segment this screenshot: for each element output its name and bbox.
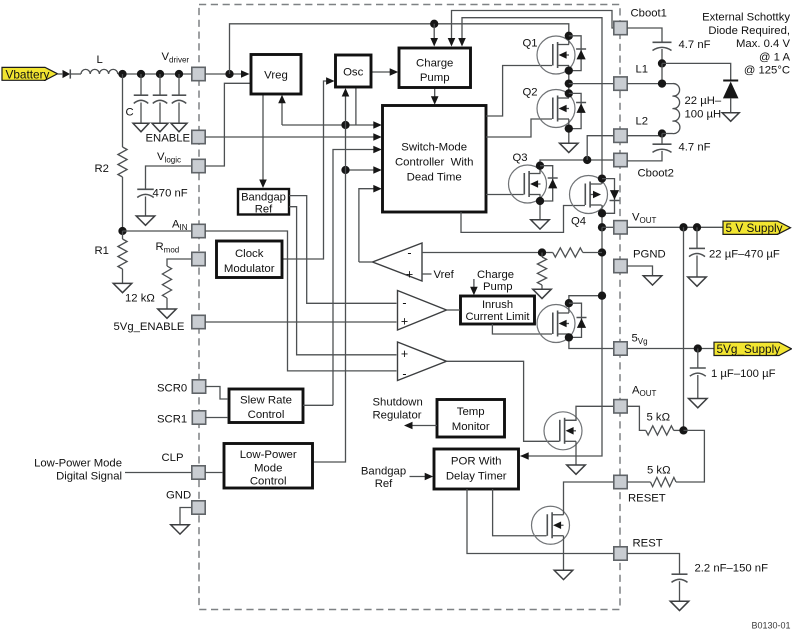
svg-text:100 µH: 100 µH <box>685 109 722 121</box>
svg-text:Controller With: Controller With <box>395 157 474 169</box>
wire SCR1 to slew rate control <box>206 417 229 419</box>
label Vdriver <box>162 51 190 65</box>
resistor R2 <box>118 74 127 231</box>
svg-text:Q3: Q3 <box>513 152 528 164</box>
wire Cboot1 rail <box>452 11 614 41</box>
svg-text:SCR1: SCR1 <box>157 413 187 425</box>
resistor R1 <box>118 231 127 283</box>
capacitor C (second) <box>153 74 168 123</box>
ground below divider <box>533 289 552 298</box>
inductor 22uH-100uH <box>673 84 680 134</box>
ground below Aout FET <box>567 465 586 474</box>
node Q1 source <box>565 66 573 74</box>
ground below GND pin <box>171 525 190 534</box>
svg-text:Vbattery: Vbattery <box>6 67 50 81</box>
node Q3 source <box>536 197 544 205</box>
label SCR0 <box>157 382 187 394</box>
wire bandgap out1 to comparator2 minus <box>289 196 397 304</box>
label Vlogic <box>157 151 181 165</box>
svg-text:GND: GND <box>166 489 191 501</box>
svg-text:4.7 nF: 4.7 nF <box>679 39 711 51</box>
wire charge pump to controller <box>434 88 436 101</box>
5Vg_Supply tag <box>714 342 792 356</box>
wire Q4 drain <box>601 160 603 184</box>
label External Schottky note <box>702 12 790 77</box>
wire Q1 source to midpoint <box>568 66 570 94</box>
pin VOUT <box>614 221 627 234</box>
block Slew Rate Control U-SRC <box>229 389 303 423</box>
node LPMC line crossing <box>341 121 349 129</box>
svg-text:Shutdown: Shutdown <box>373 396 423 408</box>
ground below REST cap <box>670 601 689 610</box>
wire Q4 source to Vout node <box>601 205 603 227</box>
pin Vdriver <box>192 67 205 80</box>
svg-text:Vreg: Vreg <box>264 69 288 81</box>
node C1 tap <box>137 70 145 78</box>
svg-text:-: - <box>402 296 406 310</box>
transistor Q2 <box>537 90 575 128</box>
svg-text:Regulator: Regulator <box>373 410 422 422</box>
svg-text:B0130-01: B0130-01 <box>751 621 790 631</box>
wire 5Vg drain to Vout <box>569 296 602 313</box>
transistor Q4 <box>570 176 608 214</box>
svg-text:Charge: Charge <box>477 269 514 281</box>
svg-text:5 V Supply: 5 V Supply <box>726 221 783 235</box>
arrow into controller in5 <box>373 185 382 193</box>
svg-text:Pump: Pump <box>483 281 513 293</box>
op-amp comparator 2 (inrush) <box>398 291 447 331</box>
arrow into bandgap ref <box>259 180 267 189</box>
label 4.7 nF top <box>679 39 711 51</box>
resistor 5k lower <box>627 477 676 486</box>
wire L2 node to cap2 <box>661 134 663 145</box>
svg-text:Control: Control <box>248 409 285 421</box>
resistor divider lower <box>537 253 546 290</box>
wire bandgap out2 to comparator3 plus <box>289 207 397 355</box>
wire Q1 drain <box>568 36 570 45</box>
label REST <box>633 538 663 550</box>
wire Cboot2 internal stub <box>602 159 614 161</box>
svg-text:+: + <box>406 267 413 281</box>
svg-text:2.2 nF–150 nF: 2.2 nF–150 nF <box>695 563 769 575</box>
svg-text:Control: Control <box>250 476 287 488</box>
ground below PGND <box>643 276 662 285</box>
wire 5Vg_ENABLE to comparator2 plus <box>205 321 396 323</box>
pin RESET <box>614 475 627 488</box>
capacitor 4.7 nF bottom <box>653 144 672 152</box>
block Inrush Current Limit U-ICL <box>461 296 535 324</box>
svg-text:PGND: PGND <box>633 249 666 261</box>
capacitor C (third) <box>172 74 187 123</box>
wire Aout drain to pin <box>565 406 614 420</box>
label Cboot2 <box>638 168 674 180</box>
label Cboot1 <box>631 8 667 20</box>
arrow into charge pump 2 <box>448 38 456 47</box>
wire GND pin to ground <box>180 508 192 525</box>
svg-text:L1: L1 <box>636 64 649 76</box>
wire Q1 gate <box>486 66 552 117</box>
label L <box>97 54 103 66</box>
label 470 nF <box>153 188 188 200</box>
pin REST <box>614 547 627 560</box>
ground below Q2 <box>560 143 579 152</box>
block Charge Pump U-CP <box>399 48 471 88</box>
ground below 470 nF <box>136 216 155 225</box>
arrow into inrush top <box>470 287 478 296</box>
label SCR1 <box>157 413 187 425</box>
arrow up into Vreg <box>278 95 286 104</box>
label R1 <box>95 245 109 257</box>
svg-text:Vref: Vref <box>434 269 455 281</box>
block Switch-Mode Controller U-SMC <box>383 106 487 213</box>
block Osc U-OSC <box>336 55 372 87</box>
svg-text:R1: R1 <box>95 245 109 257</box>
node Vout sense tap <box>679 223 687 231</box>
arrow into Osc left <box>326 77 335 85</box>
wire Aout source to ground <box>575 441 577 465</box>
wire error amp to controller <box>359 189 376 262</box>
wire Vdriver to Vreg <box>205 73 244 75</box>
resistor Rmod external <box>162 259 192 309</box>
node L1 midpoint <box>565 79 573 87</box>
wire AIN to comparator3 minus <box>205 231 396 371</box>
block Temp Monitor U-TM <box>437 400 505 438</box>
wire L1 rail <box>462 18 602 160</box>
ground below reset FET <box>554 570 573 579</box>
node 5Vg drain tap <box>565 299 573 307</box>
arrow into charge pump left <box>390 68 399 76</box>
pin SCR1 <box>192 411 205 424</box>
pin Cboot1 <box>614 21 627 34</box>
arrow to shutdown regulator <box>404 422 413 430</box>
wire REST pin to cap <box>627 554 679 575</box>
label PGND <box>633 249 666 261</box>
pin Rmod <box>192 252 205 265</box>
label 5Vg <box>632 333 648 347</box>
wire CLP input <box>125 472 192 474</box>
label 1uF-100uF <box>711 368 776 380</box>
block Bandgap Ref U-BG <box>238 189 289 215</box>
pin CLP <box>192 466 205 479</box>
label VOUT <box>632 212 657 226</box>
svg-text:Bandgap: Bandgap <box>361 466 406 478</box>
wire Q3 drain to rail <box>540 160 602 174</box>
wire error amp output <box>359 261 373 263</box>
svg-text:Modulator: Modulator <box>224 263 275 275</box>
svg-text:Diode Required,: Diode Required, <box>708 25 790 37</box>
svg-text:Osc: Osc <box>343 66 364 78</box>
wire slew-rate to controller <box>333 150 376 406</box>
label 22uF-470uF <box>709 249 780 261</box>
wire Osc bottom stub <box>355 87 357 125</box>
pin Cboot2 <box>614 153 627 166</box>
svg-text:CLP: CLP <box>162 452 184 464</box>
node resistor junction <box>679 426 687 434</box>
wire SCR0 to slew rate control <box>206 387 229 400</box>
svg-text:Ref: Ref <box>375 478 393 490</box>
label 22uH-100uH <box>685 95 722 121</box>
svg-text:Current Limit: Current Limit <box>465 311 530 323</box>
inductor L <box>81 69 118 74</box>
label 5k upper <box>647 411 671 423</box>
svg-text:Temp: Temp <box>457 406 485 418</box>
transistor Aout follower <box>544 412 582 450</box>
svg-text:12 kΩ: 12 kΩ <box>125 293 155 305</box>
node Q2 source <box>565 124 573 132</box>
label Rmod <box>156 241 180 255</box>
block POR With Delay Timer U-POR <box>434 449 519 489</box>
wire diode to inductor <box>70 73 81 75</box>
label CLP <box>162 452 184 464</box>
label AOUT <box>632 385 657 399</box>
node 5Vg source <box>565 333 573 341</box>
svg-text:Low-Power Mode: Low-Power Mode <box>34 457 122 469</box>
svg-text:L: L <box>97 54 103 66</box>
ground below schottky <box>722 113 739 122</box>
diode Q1 body <box>569 36 586 71</box>
wire Vreg to bandgap <box>262 94 264 183</box>
wire charge pump into inrush <box>473 279 475 290</box>
capacitor 1uF-100uF <box>690 349 706 399</box>
label ENABLE <box>146 133 191 145</box>
capacitor 2.2nF-150nF <box>672 574 688 601</box>
svg-text:-: - <box>407 246 411 260</box>
capacitor 22uF-470uF <box>689 227 705 277</box>
wire Vout sense chain <box>521 227 603 456</box>
wire L1 pin to inductor <box>627 83 672 85</box>
wire bandgap ref to POR <box>410 476 428 478</box>
capacitor 470 nF on Vlogic <box>137 166 192 216</box>
svg-text:Inrush: Inrush <box>482 299 513 311</box>
arrow into controller in1 <box>373 121 382 129</box>
arrow into POR left <box>425 473 434 481</box>
wire error amp minus input <box>422 252 542 254</box>
wire CLP to LPMC <box>205 472 223 474</box>
node top rail to charge pump <box>430 20 438 28</box>
wire midpoint to L1 pin <box>569 83 614 85</box>
pin L1 <box>614 77 627 90</box>
svg-text:ENABLE: ENABLE <box>146 133 191 145</box>
svg-text:Low-Power: Low-Power <box>240 449 297 461</box>
svg-text:+: + <box>401 315 408 329</box>
wire slew rate control output <box>303 404 333 406</box>
svg-text:POR With: POR With <box>451 455 502 467</box>
svg-text:Mode: Mode <box>254 462 283 474</box>
label 5k lower <box>647 464 671 476</box>
wire Vbattery to diode <box>58 73 63 75</box>
wire clock modulator to Osc <box>282 81 329 259</box>
svg-text:Slew Rate: Slew Rate <box>240 394 292 406</box>
svg-text:Switch-Mode: Switch-Mode <box>401 142 467 154</box>
ground below C1 <box>133 123 149 132</box>
pin PGND <box>614 259 627 272</box>
svg-text:Q4: Q4 <box>571 216 586 228</box>
wire RESET pin to drain <box>564 482 614 515</box>
label Q2 <box>523 87 538 99</box>
wire L2 pin to inductor <box>627 134 662 136</box>
diode Q4 body <box>602 179 620 214</box>
label Q1 <box>523 38 538 50</box>
node Q4 drain <box>598 174 606 182</box>
wire Osc to charge pump <box>371 71 393 73</box>
wire cap to schottky node <box>661 49 663 63</box>
pin GND <box>192 501 205 514</box>
node 5Vg cap tap <box>694 344 702 352</box>
wire L2 pin to rail <box>587 136 614 160</box>
svg-text:@ 125°C: @ 125°C <box>744 65 790 77</box>
arrow into controller in4 <box>373 166 382 174</box>
node Vbattery-C junction <box>118 70 126 78</box>
svg-text:4.7 nF: 4.7 nF <box>679 142 711 154</box>
svg-text:@ 1 A: @ 1 A <box>759 51 790 63</box>
arrow into POR right <box>520 452 529 460</box>
node Q3 drain diode tap <box>536 162 544 170</box>
svg-text:5Vg_Supply: 5Vg_Supply <box>717 342 781 356</box>
pin AOUT <box>614 400 627 413</box>
svg-text:SCR0: SCR0 <box>157 382 187 394</box>
wire cap2 to Cboot2 pin <box>627 151 662 161</box>
arrow into controller in2 <box>373 133 382 141</box>
capacitor C (first) <box>134 74 149 123</box>
svg-text:+: + <box>401 347 408 361</box>
wire 5Vg source to pin <box>569 334 613 349</box>
transistor Q1 <box>537 36 575 74</box>
wire POR to REST pin <box>467 489 614 554</box>
arrow into charge pump 3 <box>458 38 466 47</box>
svg-text:Clock: Clock <box>235 248 264 260</box>
arrow into charge pump 1 <box>430 38 438 47</box>
svg-text:Pump: Pump <box>420 72 450 84</box>
node L2 rail junction <box>583 156 591 164</box>
wire divider tap to AIN pin <box>123 230 193 232</box>
node feedback top <box>598 248 606 256</box>
label RESET <box>628 493 666 505</box>
label 12 kOhm <box>125 293 155 305</box>
node L1 external <box>658 79 666 87</box>
pin 5Vg <box>614 342 627 355</box>
wire Vout to resistor junction <box>683 227 685 430</box>
wire schottky node to L1 node <box>661 63 663 83</box>
pin SCR0 <box>192 380 205 393</box>
wire LPMC riser to controller <box>346 169 377 171</box>
arrow into controller top <box>431 96 439 105</box>
label 4.7 nF bottom <box>679 142 711 154</box>
transistor reset open-drain <box>532 506 570 544</box>
pin L2 <box>614 129 627 142</box>
svg-text:5 kΩ: 5 kΩ <box>647 464 671 476</box>
wire to schottky diode <box>662 63 731 80</box>
block Clock Modulator U-CM <box>217 241 283 278</box>
wire control line to Vreg bottom <box>281 100 283 125</box>
block Vreg U-VREG <box>251 55 301 95</box>
node L2 external <box>658 129 666 137</box>
svg-text:Cboot1: Cboot1 <box>631 8 667 20</box>
svg-text:External Schottky: External Schottky <box>702 12 790 24</box>
pin ENABLE <box>192 130 205 143</box>
arrow into Vreg <box>241 70 250 78</box>
ground below Q3 <box>531 220 550 229</box>
ground below R1 <box>113 283 132 292</box>
label Bandgap Ref input <box>361 466 406 491</box>
label L1 <box>636 64 649 76</box>
wire Q2 gate <box>486 119 552 137</box>
label Low-Power Mode Digital Signal <box>34 457 122 482</box>
wire reset FET source to ground <box>563 536 565 571</box>
node Q1 drain <box>565 32 573 40</box>
arrow into controller in3 <box>373 146 382 154</box>
label L2 <box>636 116 649 128</box>
wire Q3 gate <box>486 194 524 196</box>
wire Q2 source to ground <box>568 119 570 143</box>
node AIN divider tap <box>118 227 126 235</box>
wire POR to reset FET gate <box>493 489 547 536</box>
label Charge Pump (inrush) <box>477 269 514 293</box>
node C3 tap <box>175 70 183 78</box>
svg-text:Monitor: Monitor <box>452 421 490 433</box>
capacitor 4.7 nF top <box>653 42 672 50</box>
svg-text:5 kΩ: 5 kΩ <box>647 411 671 423</box>
diode external Schottky <box>723 81 739 113</box>
node schottky junction <box>658 59 666 67</box>
node C2 tap <box>156 70 164 78</box>
pin AIN <box>192 224 205 237</box>
wire Vref stub <box>422 273 432 275</box>
label Q4 <box>571 216 586 228</box>
node Q2 drain <box>565 89 573 97</box>
node Vout cap tap <box>693 223 701 231</box>
node LPMC riser tap <box>341 166 349 174</box>
wire Cboot1 to cap <box>627 28 662 42</box>
diode Q3 body <box>540 166 558 201</box>
svg-text:470 nF: 470 nF <box>153 188 188 200</box>
5 V Supply tag <box>723 221 791 235</box>
svg-text:Delay Timer: Delay Timer <box>446 470 507 482</box>
svg-text:1 µF–100 µF: 1 µF–100 µF <box>711 368 776 380</box>
label Q3 <box>513 152 528 164</box>
svg-text:Charge: Charge <box>416 58 453 70</box>
IC boundary (dashed box) <box>199 5 620 610</box>
wire Vbattery rail to Vdriver pin <box>118 73 192 75</box>
svg-text:Cboot2: Cboot2 <box>638 168 674 180</box>
pin Vlogic <box>192 159 205 172</box>
wire inductor to L2 node <box>662 133 673 135</box>
ground below C2 <box>152 123 168 132</box>
transistor Q3 <box>509 165 547 203</box>
svg-text:C: C <box>126 107 134 119</box>
wire inrush gate <box>492 324 552 334</box>
diode 5Vg body <box>569 303 587 337</box>
svg-text:REST: REST <box>633 538 663 550</box>
op-amp error amplifier (left-facing) <box>373 243 423 281</box>
ground below Rmod resistor <box>158 309 177 318</box>
wire 5Vg pin to supply <box>627 348 714 350</box>
svg-text:L2: L2 <box>636 116 649 128</box>
resistor feedback horizontal <box>542 248 602 257</box>
resistor 5k upper <box>646 426 684 435</box>
label figure number B0130-01 <box>751 621 790 631</box>
label R2 <box>95 163 109 175</box>
diode Q2 body <box>569 93 586 128</box>
svg-text:22 µF–470 µF: 22 µF–470 µF <box>709 249 780 261</box>
svg-text:22 µH–: 22 µH– <box>685 95 722 107</box>
label Vref <box>434 269 455 281</box>
wire PGND to ground <box>627 266 652 276</box>
ground below 1uF cap <box>689 399 708 408</box>
node Q4 source <box>598 209 606 217</box>
svg-text:Bandgap: Bandgap <box>241 191 286 203</box>
svg-text:-: - <box>402 367 406 381</box>
label 2.2nF-150nF <box>695 563 769 575</box>
